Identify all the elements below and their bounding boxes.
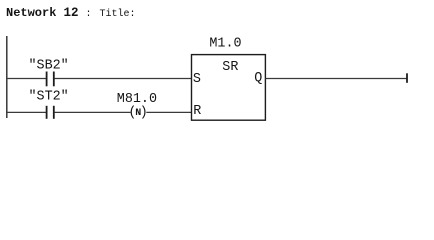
svg-text::: : [86,9,92,20]
svg-text:12: 12 [64,6,79,20]
svg-text:Title:: Title: [100,8,136,20]
contact SB2 [47,72,54,87]
wire rung2 contact to coil [55,111,131,113]
wire rung2 rail to contact [6,111,46,113]
svg-text:"ST2": "ST2" [29,90,69,105]
svg-text:"SB2": "SB2" [29,59,69,74]
network title label [6,6,136,20]
svg-text:S: S [193,72,201,87]
wire coil to SR box R input [146,111,191,113]
svg-text:M1.0: M1.0 [209,36,241,51]
svg-text:R: R [193,104,201,119]
svg-text:Network: Network [6,6,56,20]
svg-text:Q: Q [254,71,262,86]
wire Q output [266,78,408,80]
SR flip-flop box U M1.0 [192,55,266,121]
left power rail [6,36,8,118]
wire rung1 contact to SR box S input [55,78,192,80]
coil (N) negative edge detection [128,105,147,120]
svg-text:M81.0: M81.0 [117,92,157,107]
svg-text:SR: SR [222,60,238,75]
contact ST2 [47,106,54,119]
output end tick [406,73,408,83]
wire rung1 rail to contact [6,78,46,80]
